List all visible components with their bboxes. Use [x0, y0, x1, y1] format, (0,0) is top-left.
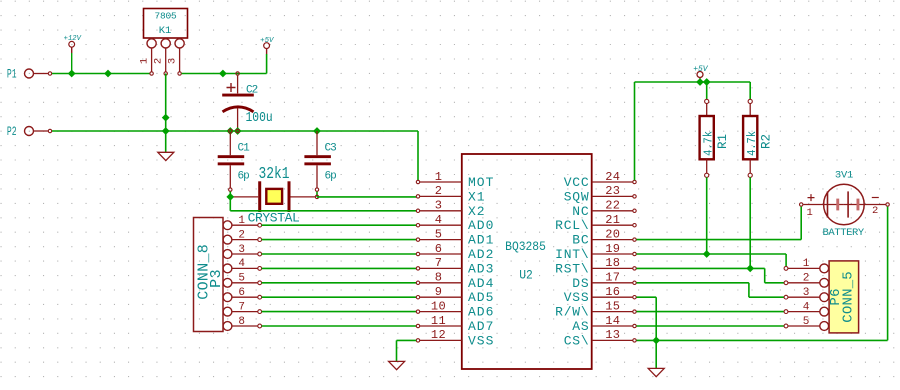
svg-text:AD0: AD0 [468, 218, 494, 233]
svg-text:3: 3 [167, 58, 179, 64]
svg-text:X2: X2 [468, 204, 486, 219]
wire crystal right to X1 [317, 196, 416, 198]
svg-text:K1: K1 [159, 25, 172, 37]
P3 pin 8 [223, 322, 232, 331]
svg-text:4: 4 [238, 258, 245, 270]
svg-text:RCL\: RCL\ [555, 218, 589, 233]
svg-text:VSS: VSS [468, 333, 494, 348]
U2 pin 20 BC [633, 238, 636, 241]
svg-text:P2: P2 [7, 125, 17, 139]
svg-text:VSS: VSS [564, 290, 590, 305]
U2 pin 11 AD7 [416, 324, 419, 327]
wire battery+ to BC [800, 207, 802, 240]
svg-text:U2: U2 [519, 268, 533, 283]
svg-text:1: 1 [139, 58, 151, 64]
junction [104, 70, 112, 78]
svg-text:14: 14 [605, 314, 620, 328]
svg-text:NC: NC [572, 204, 589, 219]
U2 pin 6 AD2 [416, 252, 419, 255]
svg-text:6p: 6p [238, 171, 250, 183]
svg-text:CS\: CS\ [564, 333, 590, 348]
svg-text:2: 2 [803, 273, 810, 285]
C2 plus sign [227, 83, 236, 92]
svg-text:7: 7 [238, 301, 245, 313]
P3 pin 3 [223, 250, 232, 259]
svg-text:AS: AS [572, 319, 589, 334]
svg-text:+5V: +5V [260, 37, 274, 45]
U2 pin 15 R/W\ [633, 310, 636, 313]
U2 pin 22 NC [633, 209, 636, 212]
svg-text:P1: P1 [7, 68, 17, 82]
U2 pin 16 VSS [633, 296, 636, 299]
wire C1 to crystal node [229, 192, 231, 197]
svg-text:4.7k: 4.7k [747, 131, 760, 156]
svg-text:12: 12 [431, 328, 446, 342]
svg-text:AD7: AD7 [468, 319, 494, 334]
wire battery- down [887, 207, 889, 341]
svg-text:AD4: AD4 [468, 276, 494, 291]
ground [158, 152, 174, 160]
svg-text:100u: 100u [246, 110, 273, 125]
svg-text:20: 20 [605, 227, 620, 241]
svg-text:5: 5 [803, 316, 810, 328]
U2 pin 14 AS [633, 324, 636, 327]
wire regulator gnd down [165, 74, 167, 153]
svg-text:10: 10 [431, 299, 446, 313]
junction C2 bottom [234, 127, 242, 135]
wire VCC drop [634, 82, 636, 180]
wire P3-5 to AD4 [262, 282, 417, 284]
P6 pin 4 [820, 307, 829, 316]
svg-text:1: 1 [803, 258, 810, 270]
svg-text:2: 2 [153, 58, 165, 64]
U2 pin 18 RST\ [633, 267, 636, 270]
battery pin 1 + [803, 204, 823, 206]
svg-text:24: 24 [605, 170, 620, 184]
wire P1 to regulator input [52, 73, 150, 75]
svg-text:8: 8 [435, 271, 443, 285]
U2 pin 19 INT\ [633, 252, 636, 255]
svg-text:CRYSTAL: CRYSTAL [248, 211, 300, 226]
junction P2 row [162, 127, 170, 135]
svg-text:1: 1 [806, 207, 812, 219]
wire VSS pin12 to ground [397, 339, 417, 341]
U2 pin 17 DS [633, 281, 636, 284]
P6 pin 3 [820, 293, 829, 302]
resistor R1 4.7k [706, 82, 708, 99]
IC U2 BQ3285 [462, 154, 592, 369]
svg-text:3: 3 [238, 244, 245, 256]
svg-text:17: 17 [605, 271, 620, 285]
svg-text:C1: C1 [238, 143, 251, 155]
wire DS17 to P6-3 [637, 282, 749, 284]
svg-text:CONN_5: CONN_5 [841, 271, 857, 323]
P3 pin 5 [223, 278, 232, 287]
wire VSS16 down [637, 296, 657, 298]
svg-text:MOT: MOT [468, 175, 494, 190]
U2 pin 9 AD5 [416, 296, 419, 299]
svg-text:6: 6 [435, 242, 443, 256]
wire P3-6 to AD5 [262, 296, 417, 298]
junction crystal-C1 [229, 195, 232, 198]
U2 pin 10 AD6 [416, 310, 419, 313]
svg-text:1: 1 [435, 170, 443, 184]
svg-text:RST\: RST\ [555, 261, 589, 276]
svg-text:2: 2 [872, 205, 878, 217]
ground [389, 361, 405, 369]
junction R2 [746, 265, 754, 273]
svg-text:4: 4 [803, 301, 810, 313]
wire up to +5V [266, 54, 268, 74]
U2 pin 3 X2 [416, 209, 419, 212]
svg-text:5: 5 [435, 227, 443, 241]
wire crystal left to X2 (jog) [229, 197, 231, 211]
wire RST18 to P6-2 [637, 267, 765, 269]
svg-text:SQW: SQW [564, 189, 590, 204]
junction [219, 70, 227, 78]
U2 pin 2 X1 [416, 195, 419, 198]
capacitor C2 100u [236, 72, 239, 75]
svg-text:4: 4 [435, 213, 443, 227]
svg-text:1: 1 [238, 215, 245, 227]
wire INT19 to P6-1 [637, 253, 787, 255]
svg-text:AD2: AD2 [468, 247, 494, 262]
svg-text:R1: R1 [716, 134, 730, 149]
svg-text:BQ3285: BQ3285 [505, 239, 546, 254]
svg-text:+5V: +5V [693, 65, 709, 74]
U2 pin 1 MOT [416, 180, 419, 183]
P6 pin 5 [820, 322, 829, 331]
svg-text:2: 2 [238, 229, 245, 241]
U2 pin 8 AD4 [416, 281, 419, 284]
U2 pin 24 VCC [633, 180, 636, 183]
svg-text:AD1: AD1 [468, 233, 494, 248]
svg-text:22: 22 [605, 199, 620, 213]
svg-text:23: 23 [605, 184, 620, 198]
battery pin 2 - [864, 204, 885, 206]
resistor R2 4.7k [749, 82, 751, 99]
svg-text:6: 6 [238, 287, 245, 299]
svg-text:16: 16 [605, 285, 620, 299]
svg-text:7805: 7805 [154, 11, 177, 22]
wire AS14 to P6-5 [637, 325, 785, 327]
svg-text:3V1: 3V1 [835, 170, 853, 182]
regulator K1 7805 [144, 9, 188, 39]
battery 3V1 [824, 184, 865, 225]
svg-text:3: 3 [435, 199, 443, 213]
connector P3 CONN_8 [194, 218, 224, 332]
svg-text:8: 8 [238, 316, 245, 328]
wire P3-1 to AD0 [262, 224, 417, 226]
svg-text:7: 7 [435, 256, 443, 270]
svg-text:13: 13 [605, 328, 620, 342]
svg-text:C3: C3 [325, 143, 337, 155]
P3 pin 1 [223, 221, 232, 230]
svg-text:P3: P3 [208, 269, 225, 288]
svg-text:BC: BC [572, 233, 589, 248]
svg-text:R/W\: R/W\ [555, 305, 589, 320]
U2 pin 4 AD0 [416, 224, 419, 227]
junction [652, 337, 660, 345]
svg-text:AD3: AD3 [468, 261, 494, 276]
wire P3-8 to AD7 [262, 325, 417, 327]
P3 pin 2 [223, 235, 232, 244]
svg-text:18: 18 [605, 256, 620, 270]
P6 pin 2 [820, 278, 829, 287]
svg-text:32k1: 32k1 [259, 163, 290, 183]
svg-text:C2: C2 [246, 85, 258, 97]
svg-text:3: 3 [803, 287, 810, 299]
wire P3-3 to AD2 [262, 253, 417, 255]
svg-text:5: 5 [238, 273, 245, 285]
svg-text:AD6: AD6 [468, 305, 494, 320]
U2 pin 21 RCL\ [633, 224, 636, 227]
svg-text:2: 2 [435, 184, 443, 198]
P3 pin 6 [223, 293, 232, 302]
wire R2 to RST row [749, 177, 751, 268]
wire CS row / battery- [637, 339, 888, 341]
junction [696, 78, 704, 86]
junction [162, 114, 170, 122]
svg-text:6p: 6p [325, 171, 337, 183]
svg-text:4.7k: 4.7k [703, 131, 716, 156]
P3 pin 4 [223, 264, 232, 273]
wire P2 row to MOT [52, 130, 418, 132]
U2 pin 23 SQW [633, 195, 636, 198]
svg-text:BATTERY: BATTERY [823, 227, 865, 239]
wire regulator output [182, 73, 267, 75]
junction [703, 78, 711, 86]
svg-text:R2: R2 [760, 134, 774, 149]
U2 pin 13 CS\ [633, 339, 636, 342]
wire P3-7 to AD6 [262, 311, 417, 313]
junction +12V tap [68, 70, 76, 78]
crystal 32k1 [258, 181, 261, 212]
U2 pin 5 AD1 [416, 238, 419, 241]
svg-text:21: 21 [605, 213, 620, 227]
P3 pin 7 [223, 307, 232, 316]
wire R1 to INT row [706, 177, 708, 254]
connector P6 CONN_5 [829, 261, 859, 333]
U2 pin 12 VSS [416, 339, 419, 342]
capacitor C1 6p [229, 133, 231, 155]
ground [648, 368, 664, 376]
wire P3-4 to AD3 [262, 267, 417, 269]
junction R1 [703, 250, 711, 258]
svg-text:9: 9 [435, 285, 443, 299]
svg-text:VCC: VCC [564, 175, 590, 190]
svg-text:INT\: INT\ [555, 247, 589, 262]
U2 pin 7 AD3 [416, 267, 419, 270]
capacitor C3 6p [313, 127, 321, 135]
wire C3 stub [316, 192, 318, 197]
wire P3-2 to AD1 [262, 239, 417, 241]
svg-text:DS: DS [572, 276, 589, 291]
node crystal-C3 [315, 195, 318, 198]
svg-text:11: 11 [431, 314, 446, 328]
wire RW15 to P6-4 [637, 311, 785, 313]
svg-text:15: 15 [605, 299, 620, 313]
wire to ground [655, 340, 657, 368]
svg-text:AD5: AD5 [468, 290, 494, 305]
junction C1 top [226, 127, 234, 135]
P6 pin 1 [820, 264, 829, 273]
svg-text:X1: X1 [468, 189, 486, 204]
wire +5V rail [635, 81, 751, 83]
svg-text:19: 19 [605, 242, 620, 256]
